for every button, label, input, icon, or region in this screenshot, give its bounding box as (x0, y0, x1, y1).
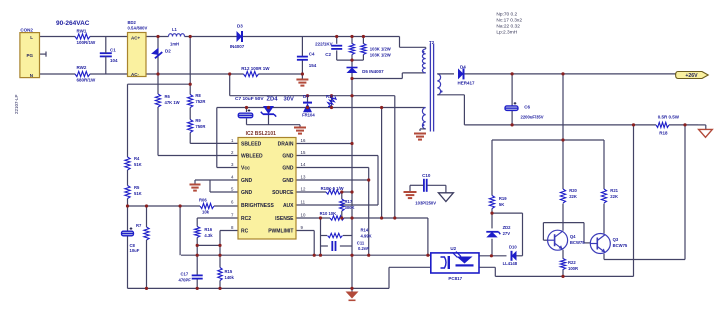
svg-text:GND: GND (241, 190, 253, 196)
svg-text:47K 1W: 47K 1W (165, 100, 180, 105)
svg-text:RC: RC (241, 229, 249, 235)
svg-text:C11: C11 (357, 241, 365, 246)
svg-text:0.2nF: 0.2nF (358, 246, 369, 251)
svg-text:R17: R17 (345, 199, 353, 204)
svg-text:BCW75: BCW75 (613, 243, 628, 248)
svg-text:4.99K: 4.99K (361, 234, 372, 239)
svg-text:90-264VAC: 90-264VAC (56, 20, 90, 27)
svg-text:140k: 140k (225, 275, 235, 280)
svg-text:51K: 51K (134, 162, 142, 167)
svg-text:GND: GND (282, 154, 294, 160)
svg-text:16: 16 (301, 138, 306, 143)
svg-text:R8: R8 (195, 93, 201, 98)
svg-text:11: 11 (301, 200, 306, 205)
svg-text:0.5R 0.5W: 0.5R 0.5W (658, 115, 680, 120)
svg-text:L1: L1 (172, 27, 178, 32)
svg-text:Q4: Q4 (570, 234, 576, 239)
svg-text:103K 1/2W: 103K 1/2W (370, 47, 391, 52)
svg-text:10k: 10k (202, 210, 210, 215)
svg-text:SBLEED: SBLEED (241, 142, 262, 148)
svg-text:10: 10 (301, 213, 306, 218)
svg-text:680R/1W: 680R/1W (77, 78, 97, 83)
svg-text:22K: 22K (610, 194, 618, 199)
svg-text:PG: PG (26, 53, 33, 58)
svg-text:R6: R6 (165, 94, 171, 99)
svg-text:N: N (30, 73, 33, 78)
svg-text:2200uF/35V: 2200uF/35V (521, 115, 544, 120)
svg-text:U2: U2 (450, 246, 456, 251)
svg-text:R19: R19 (499, 196, 507, 201)
svg-text:GND: GND (282, 166, 294, 172)
svg-text:103K 1/2W: 103K 1/2W (370, 53, 391, 58)
svg-text:ZD4: ZD4 (267, 97, 279, 103)
svg-text:13: 13 (301, 175, 306, 180)
svg-text:D2: D2 (165, 49, 171, 54)
svg-text:HER417: HER417 (458, 81, 476, 86)
svg-text:R7: R7 (136, 223, 142, 228)
svg-text:R11: R11 (326, 94, 334, 99)
svg-text:10uF: 10uF (130, 248, 140, 253)
svg-text:GND: GND (282, 178, 294, 184)
svg-text:BD2: BD2 (128, 20, 137, 25)
svg-text:R20: R20 (569, 188, 577, 193)
svg-text:BRIGHTNESS: BRIGHTNESS (241, 203, 274, 209)
svg-text:Vcc: Vcc (241, 166, 250, 172)
svg-text:103P/250V: 103P/250V (415, 201, 436, 206)
svg-text:GND: GND (241, 178, 253, 184)
svg-text:D4: D4 (460, 65, 466, 70)
svg-text:ZD2: ZD2 (503, 225, 512, 230)
svg-text:RW1: RW1 (77, 29, 87, 34)
svg-text:DRAIN: DRAIN (278, 142, 294, 148)
svg-text:ISENSE: ISENSE (275, 216, 294, 222)
svg-text:R10 10K: R10 10K (320, 211, 337, 216)
svg-text:C17: C17 (181, 271, 189, 276)
svg-text:D7: D7 (303, 94, 309, 99)
svg-text:R21: R21 (610, 188, 618, 193)
svg-text:Na:22 0.32: Na:22 0.32 (496, 24, 520, 30)
svg-text:27V: 27V (503, 231, 511, 236)
svg-text:752R: 752R (195, 99, 205, 104)
svg-text:30V: 30V (284, 97, 294, 103)
svg-text:BCW75: BCW75 (570, 240, 585, 245)
svg-text:IN4007: IN4007 (230, 44, 245, 49)
svg-text:PC817: PC817 (448, 276, 462, 281)
svg-text:22K: 22K (569, 194, 577, 199)
svg-text:R18: R18 (659, 130, 668, 135)
svg-text:750R: 750R (195, 124, 205, 129)
svg-text:104: 104 (110, 58, 118, 63)
svg-text:1mH: 1mH (170, 42, 179, 47)
svg-text:C4: C4 (309, 52, 315, 57)
svg-text:0.5A/600V: 0.5A/600V (128, 26, 148, 31)
svg-text:C1: C1 (110, 48, 116, 53)
svg-text:AC-: AC- (131, 72, 139, 77)
svg-text:R15: R15 (225, 269, 233, 274)
svg-text:D10: D10 (509, 245, 517, 250)
svg-text:T2: T2 (429, 40, 435, 45)
svg-text:AUX: AUX (283, 203, 294, 209)
svg-text:Lp:2.3mH: Lp:2.3mH (496, 30, 517, 36)
svg-text:CON2: CON2 (20, 28, 33, 33)
svg-text:222/1KV: 222/1KV (315, 41, 333, 46)
svg-text:IC2 BSL2101: IC2 BSL2101 (246, 131, 277, 137)
svg-text:R10K-5 1/W: R10K-5 1/W (321, 186, 344, 191)
svg-text:PWMLIMIT: PWMLIMIT (268, 229, 293, 235)
svg-text:4.3k: 4.3k (204, 233, 213, 238)
svg-text:R06: R06 (199, 198, 207, 203)
svg-text:51K: 51K (134, 191, 142, 196)
svg-text:D3: D3 (237, 24, 243, 29)
svg-text:C7 10uF 50V: C7 10uF 50V (235, 96, 264, 102)
svg-text:R14: R14 (361, 228, 369, 233)
svg-text:Nc:17 0.3x2: Nc:17 0.3x2 (496, 18, 522, 24)
svg-text:22107-LP: 22107-LP (14, 94, 19, 114)
svg-text:100R: 100R (568, 266, 578, 271)
svg-text:R16: R16 (204, 227, 212, 232)
svg-text:Np:70 0.2: Np:70 0.2 (496, 12, 517, 18)
svg-text:AC+: AC+ (131, 36, 140, 41)
svg-text:Q3: Q3 (613, 237, 619, 242)
svg-text:R12 100R 1W: R12 100R 1W (241, 66, 270, 71)
svg-text:300K: 300K (345, 205, 355, 210)
svg-text:R4: R4 (134, 156, 140, 161)
svg-text:100R/1W: 100R/1W (77, 40, 97, 45)
svg-text:SOURCE: SOURCE (272, 190, 294, 196)
svg-text:R9: R9 (195, 118, 201, 123)
svg-text:470PF: 470PF (179, 277, 192, 282)
svg-text:RW2: RW2 (77, 65, 87, 70)
svg-text:LL4148: LL4148 (503, 261, 518, 266)
svg-text:5K: 5K (499, 202, 504, 207)
svg-text:12: 12 (301, 187, 306, 192)
svg-text:WBLEED: WBLEED (241, 154, 263, 160)
svg-text:R22: R22 (568, 260, 576, 265)
svg-text:C2: C2 (325, 52, 331, 57)
svg-text:15: 15 (301, 150, 306, 155)
svg-text:FR104: FR104 (302, 112, 315, 117)
svg-text:14: 14 (301, 162, 306, 167)
svg-text:+26V: +26V (685, 73, 698, 79)
svg-text:C6: C6 (524, 104, 530, 109)
svg-text:C10: C10 (422, 173, 431, 178)
svg-text:L: L (30, 35, 33, 40)
svg-text:RC2: RC2 (241, 216, 251, 222)
svg-text:154: 154 (309, 63, 317, 68)
svg-text:R5: R5 (134, 185, 140, 190)
svg-text:D5 IN4007: D5 IN4007 (362, 69, 384, 74)
